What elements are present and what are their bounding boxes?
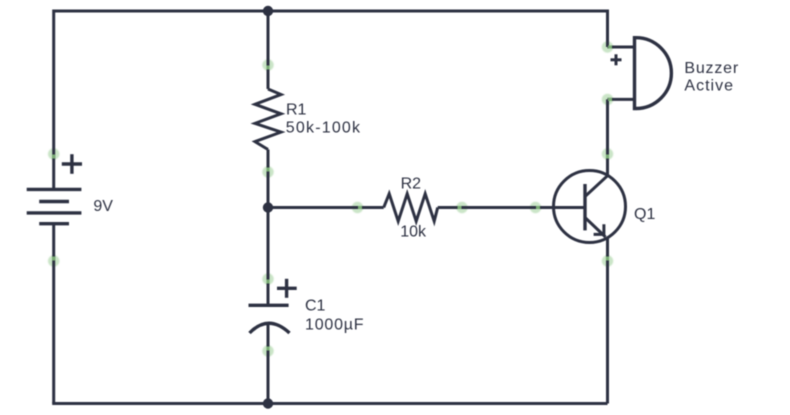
terminal pin R2 right bbox=[458, 206, 462, 209]
wire middle node to R2 bbox=[268, 206, 384, 209]
terminal halo R2 left bbox=[352, 202, 363, 213]
svg-text:50k-100k: 50k-100k bbox=[286, 119, 361, 136]
wire right rail top (top-right corner down to buzzer +) bbox=[606, 10, 609, 48]
terminal pin buzzer - bbox=[608, 98, 612, 101]
node junction top rail bbox=[263, 6, 273, 16]
resistor R2 bbox=[384, 194, 438, 221]
wire R2 to transistor base bbox=[438, 206, 585, 209]
wire middle branch top (top rail to R1) bbox=[267, 11, 270, 89]
battery BAT1 9V bbox=[27, 189, 82, 223]
terminal halo Q1 base bbox=[530, 202, 541, 213]
wire left rail top (top-left corner down to battery +) bbox=[52, 10, 55, 190]
svg-text:1000µF: 1000µF bbox=[305, 317, 364, 334]
terminal pin C1 top bbox=[266, 280, 269, 284]
capacitor C1 plus sign bbox=[277, 279, 297, 298]
svg-text:R1: R1 bbox=[286, 101, 307, 118]
svg-text:9V: 9V bbox=[93, 198, 113, 215]
terminal pin C1 bottom bbox=[266, 347, 269, 351]
battery plus sign bbox=[62, 154, 82, 174]
terminal halo C1 top bbox=[262, 273, 273, 284]
terminal pin battery + bbox=[52, 155, 55, 159]
terminal pin Q1 base bbox=[536, 206, 540, 209]
terminal halo battery - bbox=[48, 255, 59, 266]
transistor Q1 (NPN) bbox=[554, 171, 626, 243]
svg-text:Buzzer: Buzzer bbox=[684, 60, 739, 77]
capacitor C1 (polarized) bbox=[249, 305, 290, 333]
resistor R1 bbox=[255, 89, 281, 150]
node junction middle bbox=[263, 202, 273, 212]
svg-text:Q1: Q1 bbox=[634, 206, 655, 223]
wire bottom rail bbox=[54, 404, 608, 406]
svg-text:R2: R2 bbox=[401, 175, 422, 192]
wire middle node to C1 bbox=[267, 208, 270, 306]
terminal halo Q1 collector bbox=[602, 148, 613, 159]
svg-text:C1: C1 bbox=[305, 298, 326, 315]
buzzer (active) bbox=[608, 36, 672, 110]
terminal halo R1 top bbox=[262, 59, 273, 70]
terminal halo R2 right bbox=[456, 202, 467, 213]
terminal halo buzzer - bbox=[602, 94, 613, 105]
terminal pin R1 top bbox=[266, 66, 269, 70]
terminal pin Q1 collector bbox=[606, 155, 609, 159]
wire C1 to bottom rail bbox=[267, 323, 270, 404]
buzzer plus sign bbox=[611, 54, 622, 65]
wire left rail bottom (battery - down to bottom rail) bbox=[52, 224, 55, 404]
wire buzzer to transistor collector bbox=[606, 99, 609, 175]
terminal pin R2 left bbox=[358, 206, 362, 209]
wire transistor emitter to bottom rail bbox=[606, 237, 609, 403]
terminal halo Q1 emitter bbox=[602, 255, 613, 266]
terminal pin Q1 emitter bbox=[606, 257, 609, 261]
terminal halo R1 bottom bbox=[262, 166, 273, 177]
terminal halo buzzer + bbox=[602, 41, 613, 52]
terminal halo C1 bottom bbox=[262, 345, 273, 356]
wire top rail bbox=[54, 10, 608, 13]
wire R1 to middle node bbox=[267, 150, 270, 208]
terminal pin buzzer + bbox=[608, 45, 612, 48]
svg-text:10k: 10k bbox=[400, 224, 427, 241]
terminal halo battery + bbox=[48, 148, 59, 159]
terminal pin battery - bbox=[52, 257, 55, 261]
svg-text:Active: Active bbox=[684, 77, 734, 94]
terminal pin R1 bottom bbox=[266, 168, 269, 172]
node junction bottom rail bbox=[263, 398, 273, 408]
